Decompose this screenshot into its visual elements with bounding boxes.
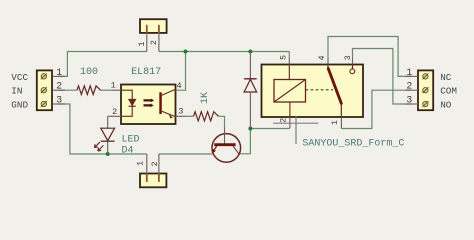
resistor R1 body (77, 86, 101, 95)
svg-text:1K: 1K (200, 92, 211, 104)
pin 2 of J1 (406, 89, 419, 91)
pin 1 of J2 (52, 75, 65, 77)
wire IN: J2 pin2 to R1 (59, 89, 78, 91)
svg-text:2: 2 (149, 40, 159, 45)
wire relay pin4 (NC) to J1 pin1 (328, 37, 412, 77)
pin 3 of U1 (176, 115, 186, 117)
svg-text:1: 1 (56, 67, 62, 78)
svg-text:COM: COM (440, 86, 457, 97)
wire VCC branch to U1 pin4 (177, 52, 186, 91)
U1 phototransistor (159, 89, 175, 118)
svg-text:1: 1 (330, 120, 340, 125)
pin 4 of K1 (327, 58, 329, 65)
wire node K to relay pin2 (250, 128, 290, 130)
transistor Q1 (NPN) (212, 128, 241, 163)
screw terminal pin J1-3 (422, 101, 428, 107)
svg-text:2: 2 (406, 81, 412, 92)
svg-text:VCC: VCC (11, 72, 28, 83)
wire R2 to Q1 base (219, 116, 225, 127)
screw terminal pin J2-3 (41, 101, 47, 107)
pin 5 of K1 (288, 58, 290, 65)
svg-text:3: 3 (178, 106, 183, 116)
svg-text:5: 5 (279, 55, 289, 60)
pin 2 of K1 (289, 117, 291, 128)
wire VCC: J2 pin1 to JP1 pin1 (59, 52, 147, 77)
pin 1 of K1 (340, 117, 342, 129)
wire GND: J2 pin3 to JP2 pin1 (59, 104, 147, 154)
svg-text:IN: IN (11, 85, 22, 96)
connector J2 (VCC/IN/GND screw terminal) (37, 70, 52, 110)
svg-text:3: 3 (406, 94, 412, 105)
svg-text:1: 1 (406, 67, 412, 78)
pin 1 of J1 (406, 75, 419, 77)
wire Q1 collector to node K (239, 129, 251, 154)
op-amp U1 EL817 optocoupler body (121, 85, 176, 125)
wire relay pin3 (NO) to J1 pin3 (353, 49, 412, 105)
svg-text:1: 1 (111, 81, 116, 91)
svg-text:100: 100 (80, 67, 98, 78)
svg-text:3: 3 (56, 94, 62, 105)
svg-text:SANYOU_SRD_Form_C: SANYOU_SRD_Form_C (302, 138, 404, 149)
pin 3 of J1 (406, 103, 419, 105)
screw terminal pin J1-2 (422, 87, 428, 93)
U1 internal LED (122, 90, 136, 116)
connector J1 (NC/COM/NO screw terminal) (418, 70, 433, 110)
svg-text:1: 1 (137, 42, 147, 47)
screw terminal pin J1-1 (422, 73, 428, 79)
svg-text:2: 2 (56, 81, 62, 92)
screw terminal pin J2-2 (41, 87, 47, 93)
LED D4 (94, 116, 114, 154)
svg-text:GND: GND (11, 99, 28, 110)
wire GND: JP2 pin2 to Q1 emitter (159, 153, 212, 155)
pin 2 of U1 (108, 115, 121, 117)
pin 4 of U1 (176, 89, 177, 91)
svg-text:LED: LED (122, 135, 140, 146)
svg-text:D4: D4 (122, 146, 134, 157)
relay actuator dashed link (306, 89, 334, 91)
pin 3 of K1 (352, 58, 354, 65)
svg-text:EL817: EL817 (131, 67, 161, 78)
pin 2 of JP2 (158, 154, 160, 174)
resistor R2 body (194, 112, 219, 121)
svg-text:NO: NO (440, 99, 452, 110)
jumper JP2 (2-pin header, bottom) (140, 174, 166, 188)
junction VCC / D1 cathode (248, 50, 252, 54)
svg-text:2: 2 (150, 161, 160, 166)
relay switch blade (328, 65, 341, 118)
wire VCC: JP1 pin2 to relay pin5 (159, 51, 289, 53)
junction D1 anode / Q1 collector / relay coil (248, 127, 252, 131)
relay coil (274, 65, 306, 118)
svg-text:2: 2 (112, 107, 117, 117)
svg-text:2: 2 (279, 118, 289, 123)
relay anchor cross mark (273, 117, 318, 144)
pin 1 of JP2 (146, 154, 148, 174)
junction GND / D4 cathode (106, 152, 110, 156)
pin 1 of JP1 (146, 33, 148, 52)
wire VCC to relay pin5 stub (288, 52, 290, 59)
jumper JP1 (2-pin header, top) (140, 19, 167, 33)
svg-text:1: 1 (135, 161, 145, 166)
svg-text:3: 3 (343, 55, 353, 60)
diode D1 (flyback) (244, 52, 257, 129)
pin 1 of U1 (112, 89, 121, 91)
wire IN: R1 to U1 pin1 (101, 89, 113, 91)
pin 2 of J2 (52, 89, 65, 91)
pin 2 of JP1 (158, 33, 160, 52)
U1 light arrows (144, 99, 155, 108)
svg-text:4: 4 (176, 81, 181, 91)
svg-text:NC: NC (440, 72, 452, 83)
relay NO contact (350, 65, 355, 74)
wire relay pin1 (COM) to J1 pin2 (341, 90, 411, 128)
svg-text:4: 4 (317, 55, 327, 60)
wire U1 pin3 to R2 (186, 115, 194, 117)
pin 3 of J2 (52, 103, 65, 105)
relay K1 SANYOU_SRD_Form_C body (262, 65, 364, 118)
screw terminal pin J2-1 (41, 73, 47, 79)
junction VCC / U1-pin4 branch (184, 50, 188, 54)
